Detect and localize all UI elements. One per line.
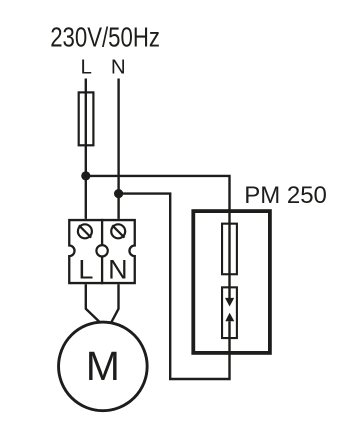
node junction L [81, 171, 90, 180]
terminal block centre hole [96, 245, 107, 256]
wire N vertical [117, 79, 119, 219]
wire terminal N to motor [111, 284, 118, 322]
screw terminal N [111, 224, 125, 238]
svg-text:PM 250: PM 250 [244, 182, 327, 209]
wire terminal L to motor [86, 284, 100, 322]
PM 250 module box [193, 211, 270, 353]
svg-text:M: M [86, 343, 120, 389]
wire from L junction to PM250 top [86, 176, 230, 299]
svg-text:N: N [108, 254, 128, 284]
wire from N junction to PM250 bottom [119, 194, 230, 379]
fuse F1 [79, 92, 94, 145]
svg-text:230V/50Hz: 230V/50Hz [50, 22, 160, 53]
terminal block divider [101, 219, 103, 284]
wire L vertical [85, 79, 87, 219]
screw terminal L [78, 224, 92, 238]
arrow down [225, 298, 234, 307]
motor M1 [59, 322, 148, 411]
thermal cutout inside PM 250 [222, 287, 237, 338]
svg-text:L: L [80, 56, 91, 79]
svg-text:L: L [78, 254, 93, 284]
node junction N [114, 189, 123, 198]
svg-text:N: N [111, 56, 126, 79]
fuse inside PM 250 [222, 224, 237, 275]
arrow up [225, 313, 234, 322]
terminal block body [69, 220, 135, 283]
